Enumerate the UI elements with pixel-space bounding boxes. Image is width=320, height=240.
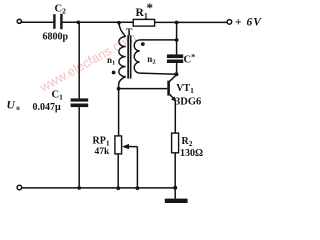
- capacitor C1: [71, 98, 89, 107]
- wire n1 bottom lead: [119, 77, 126, 89]
- node n1 phase dot: [112, 71, 116, 75]
- resistor R2: [172, 133, 179, 153]
- bottom rail: [22, 187, 176, 189]
- svg-text:+ 6V: + 6V: [235, 16, 262, 28]
- svg-text:0.047μ: 0.047μ: [33, 102, 62, 113]
- node A junction: [77, 21, 81, 25]
- node B junction: [117, 21, 121, 25]
- wire R1 to +6V: [155, 21, 228, 23]
- node n2 phase dot: [141, 42, 145, 46]
- potentiometer RP1: [115, 136, 122, 154]
- svg-text:*: *: [147, 0, 154, 15]
- node n2 top junction: [175, 38, 179, 42]
- wire R2 to rail: [174, 153, 176, 188]
- svg-text:U: U: [7, 100, 16, 112]
- wire C1 branch upper: [78, 22, 80, 98]
- node D junction: [117, 87, 121, 91]
- transformer core: [127, 36, 131, 79]
- node C junction: [175, 21, 179, 25]
- node rail junction R2: [173, 186, 177, 190]
- svg-text:47k: 47k: [95, 147, 111, 157]
- wire C* bottom: [176, 63, 178, 74]
- transistor VT1 emitter arrowhead: [171, 96, 176, 102]
- RP1 wiper arrow: [124, 146, 137, 148]
- wire emitter column: [174, 101, 176, 133]
- node tank bottom junction: [174, 72, 178, 76]
- wire wiper to rail: [136, 147, 138, 189]
- terminal output bottom-left: [17, 185, 22, 190]
- wire right column top: [176, 23, 178, 55]
- svg-text:o: o: [16, 104, 20, 112]
- wire base: [119, 88, 168, 90]
- capacitor C*: [167, 54, 183, 63]
- wire C1 branch lower: [78, 107, 80, 188]
- wire n2 top lead: [140, 39, 177, 41]
- wire n2 bottom lead: [140, 73, 177, 74]
- wire RP1 top: [118, 89, 120, 136]
- winding n1: [119, 37, 126, 77]
- transistor VT1 collector: [170, 75, 177, 82]
- wire top left: [22, 21, 54, 23]
- wire n1 top lead: [119, 23, 126, 37]
- wire RP1 bottom: [117, 154, 119, 188]
- terminal +6V: [227, 20, 232, 25]
- terminal output top-left: [17, 19, 21, 23]
- watermark www.elecfans.com: [36, 29, 138, 95]
- transistor VT1 base bar: [167, 81, 170, 96]
- wire C2 to R1: [63, 21, 134, 23]
- svg-text:130Ω: 130Ω: [180, 148, 203, 159]
- ground: [174, 188, 176, 199]
- winding n2: [134, 40, 140, 73]
- node rail junction RP1: [116, 186, 120, 190]
- resistor R1: [133, 19, 154, 26]
- capacitor C2: [53, 14, 62, 29]
- node rail junction C1: [77, 186, 81, 190]
- node rail junction wiper: [136, 186, 140, 190]
- svg-text:6800p: 6800p: [43, 32, 69, 43]
- svg-text:3DG6: 3DG6: [175, 97, 201, 108]
- svg-text:T: T: [126, 27, 133, 38]
- transistor VT1 emitter: [170, 94, 176, 100]
